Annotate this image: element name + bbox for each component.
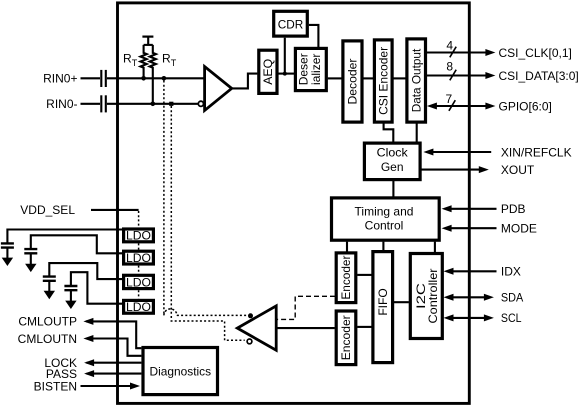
svg-text:XIN/REFCLK: XIN/REFCLK — [501, 145, 572, 159]
svg-text:Encoder: Encoder — [339, 256, 353, 300]
svg-text:LDO: LDO — [126, 275, 151, 289]
svg-text:LDO: LDO — [126, 229, 151, 243]
svg-text:Diagnostics: Diagnostics — [150, 365, 212, 379]
svg-text:8: 8 — [446, 59, 453, 73]
svg-text:CSI Encoder: CSI Encoder — [377, 47, 391, 115]
svg-text:RIN0+: RIN0+ — [43, 72, 77, 86]
svg-text:LDO: LDO — [126, 251, 151, 265]
svg-text:RIN0-: RIN0- — [46, 97, 77, 111]
svg-text:Data Output: Data Output — [409, 48, 423, 112]
svg-text:XOUT: XOUT — [501, 163, 535, 177]
svg-text:Controller: Controller — [426, 269, 440, 324]
svg-text:R: R — [162, 52, 171, 66]
svg-text:SCL: SCL — [501, 311, 522, 325]
svg-text:VDD_SEL: VDD_SEL — [20, 203, 75, 217]
svg-text:CMLOUTN: CMLOUTN — [18, 332, 77, 346]
svg-text:SDA: SDA — [501, 291, 523, 305]
svg-text:Timing and: Timing and — [355, 205, 414, 219]
svg-text:ializer: ializer — [309, 54, 323, 85]
svg-text:BISTEN: BISTEN — [34, 379, 77, 393]
svg-text:Decoder: Decoder — [345, 58, 359, 104]
svg-text:CSI_DATA[3:0]: CSI_DATA[3:0] — [499, 69, 579, 83]
svg-text:T: T — [132, 58, 138, 68]
svg-text:CDR: CDR — [278, 18, 304, 32]
svg-text:Clock: Clock — [377, 146, 409, 160]
svg-text:PDB: PDB — [501, 202, 526, 216]
svg-text:LDO: LDO — [126, 300, 151, 314]
svg-text:R: R — [123, 52, 132, 66]
svg-text:7: 7 — [446, 92, 453, 106]
svg-text:IDX: IDX — [501, 265, 521, 279]
svg-text:Control: Control — [365, 219, 404, 233]
svg-text:GPIO[6:0]: GPIO[6:0] — [499, 99, 552, 113]
svg-text:Gen: Gen — [381, 160, 404, 174]
svg-text:MODE: MODE — [501, 222, 537, 236]
svg-text:CMLOUTP: CMLOUTP — [18, 315, 77, 329]
svg-text:CSI_CLK[0,1]: CSI_CLK[0,1] — [499, 46, 572, 60]
svg-text:T: T — [171, 58, 177, 68]
svg-text:FIFO: FIFO — [376, 288, 390, 315]
svg-text:4: 4 — [446, 38, 453, 52]
svg-text:AEQ: AEQ — [261, 59, 275, 85]
svg-text:Encoder: Encoder — [339, 315, 353, 360]
